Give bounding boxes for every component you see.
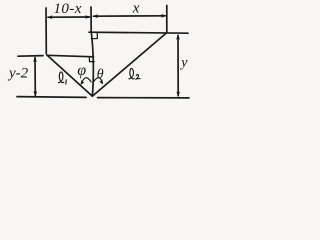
- svg-text:x: x: [132, 1, 140, 17]
- svg-text:θ: θ: [97, 67, 104, 82]
- svg-text:y: y: [179, 56, 188, 71]
- svg-text:10-x: 10-x: [54, 1, 82, 17]
- svg-text:y-2: y-2: [7, 65, 29, 81]
- svg-text:φ: φ: [77, 62, 86, 79]
